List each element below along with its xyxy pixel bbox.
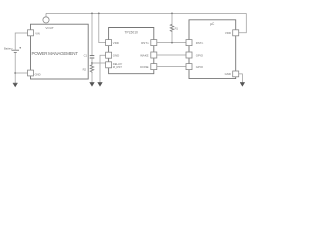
svg-text:VOUT: VOUT: [45, 26, 54, 30]
pin GND (PM): [28, 70, 34, 76]
wire R1 to RSTn net: [171, 32, 173, 42]
pin GND (TPL): [106, 52, 112, 58]
junction RSTn/R1: [171, 42, 173, 44]
svg-text:POWER MANAGEMENT: POWER MANAGEMENT: [32, 51, 79, 56]
junction rail/VDD feed: [98, 13, 100, 15]
power management block U1: [31, 24, 89, 79]
battery BT1: [12, 47, 22, 52]
capacitor C1: [90, 56, 95, 58]
pin RSTn (uC): [186, 40, 192, 46]
pin GND (uC): [233, 71, 239, 77]
svg-text:R1: R1: [175, 27, 179, 31]
resistor RDELAY: [90, 63, 93, 73]
svg-text:GPIO: GPIO: [196, 65, 204, 69]
wire VDD feed to TPL VDD: [99, 13, 106, 42]
wire battery plus to VIN pin: [15, 33, 27, 50]
svg-text:C1: C1: [84, 53, 88, 57]
wire DONE net: [157, 66, 186, 68]
TPL5010 U2 outline: [109, 28, 154, 74]
pin DELAY/M_RST (TPL): [106, 62, 112, 68]
ground (uC): [240, 83, 245, 87]
ground (RDELAY): [90, 83, 95, 87]
wire VDD rail: [46, 12, 246, 14]
microcontroller U3 outline: [189, 20, 236, 79]
svg-text:M_RST: M_RST: [113, 65, 122, 69]
wire WAKE net: [157, 54, 186, 56]
pin VDD (TPL): [106, 40, 112, 46]
wire RSTn net: [157, 42, 186, 44]
resistor R1 pull-up: [170, 24, 173, 33]
wire rail down to C1: [91, 13, 93, 55]
junction battery/gnd: [14, 72, 16, 74]
pin WAKE (TPL): [151, 52, 157, 58]
svg-text:TPL5010: TPL5010: [125, 31, 139, 35]
svg-text:R2: R2: [83, 67, 87, 71]
pin VDD (uC): [233, 30, 239, 36]
svg-text:RSTn: RSTn: [196, 41, 204, 45]
svg-text:Battery: Battery: [4, 46, 13, 50]
junction rail/R1: [171, 13, 173, 15]
svg-text:WAKE: WAKE: [140, 53, 148, 57]
svg-text:GND: GND: [225, 72, 231, 76]
svg-text:GND: GND: [35, 72, 41, 76]
pin RSTn (TPL): [151, 40, 157, 46]
svg-text:GPIO: GPIO: [196, 53, 204, 57]
svg-text:µC: µC: [210, 22, 215, 26]
junction rail/C1: [91, 13, 93, 15]
svg-text:GND: GND: [113, 54, 119, 58]
junction node DELAY: [91, 62, 93, 64]
wire rail to R1: [171, 13, 173, 23]
wire VOUT stub to rail: [45, 13, 47, 16]
pin DONE (TPL): [151, 64, 157, 70]
svg-text:DONE: DONE: [140, 65, 148, 69]
pin VIN (PM): [28, 30, 34, 36]
wire junction to PM GND pin: [15, 72, 27, 74]
wire uC GND to ground: [239, 74, 243, 83]
wire RDELAY to ground: [91, 73, 93, 83]
wire battery minus down: [14, 52, 16, 83]
wire TPL GND to ground: [100, 55, 106, 82]
svg-text:VDD: VDD: [113, 41, 119, 45]
ground (TPL GND): [98, 83, 103, 87]
pin VOUT circle (PM): [43, 17, 49, 23]
svg-text:RSTn: RSTn: [141, 41, 149, 45]
pin GPIO1 (uC): [186, 52, 192, 58]
svg-text:VIN: VIN: [35, 32, 40, 36]
wire rail to uC VDD: [239, 13, 247, 32]
wire node to DELAY pin: [92, 62, 106, 64]
wire C1 to node: [91, 58, 93, 63]
svg-text:VDD: VDD: [225, 31, 231, 35]
pin GPIO2 (uC): [186, 64, 192, 70]
ground (battery): [13, 83, 18, 87]
